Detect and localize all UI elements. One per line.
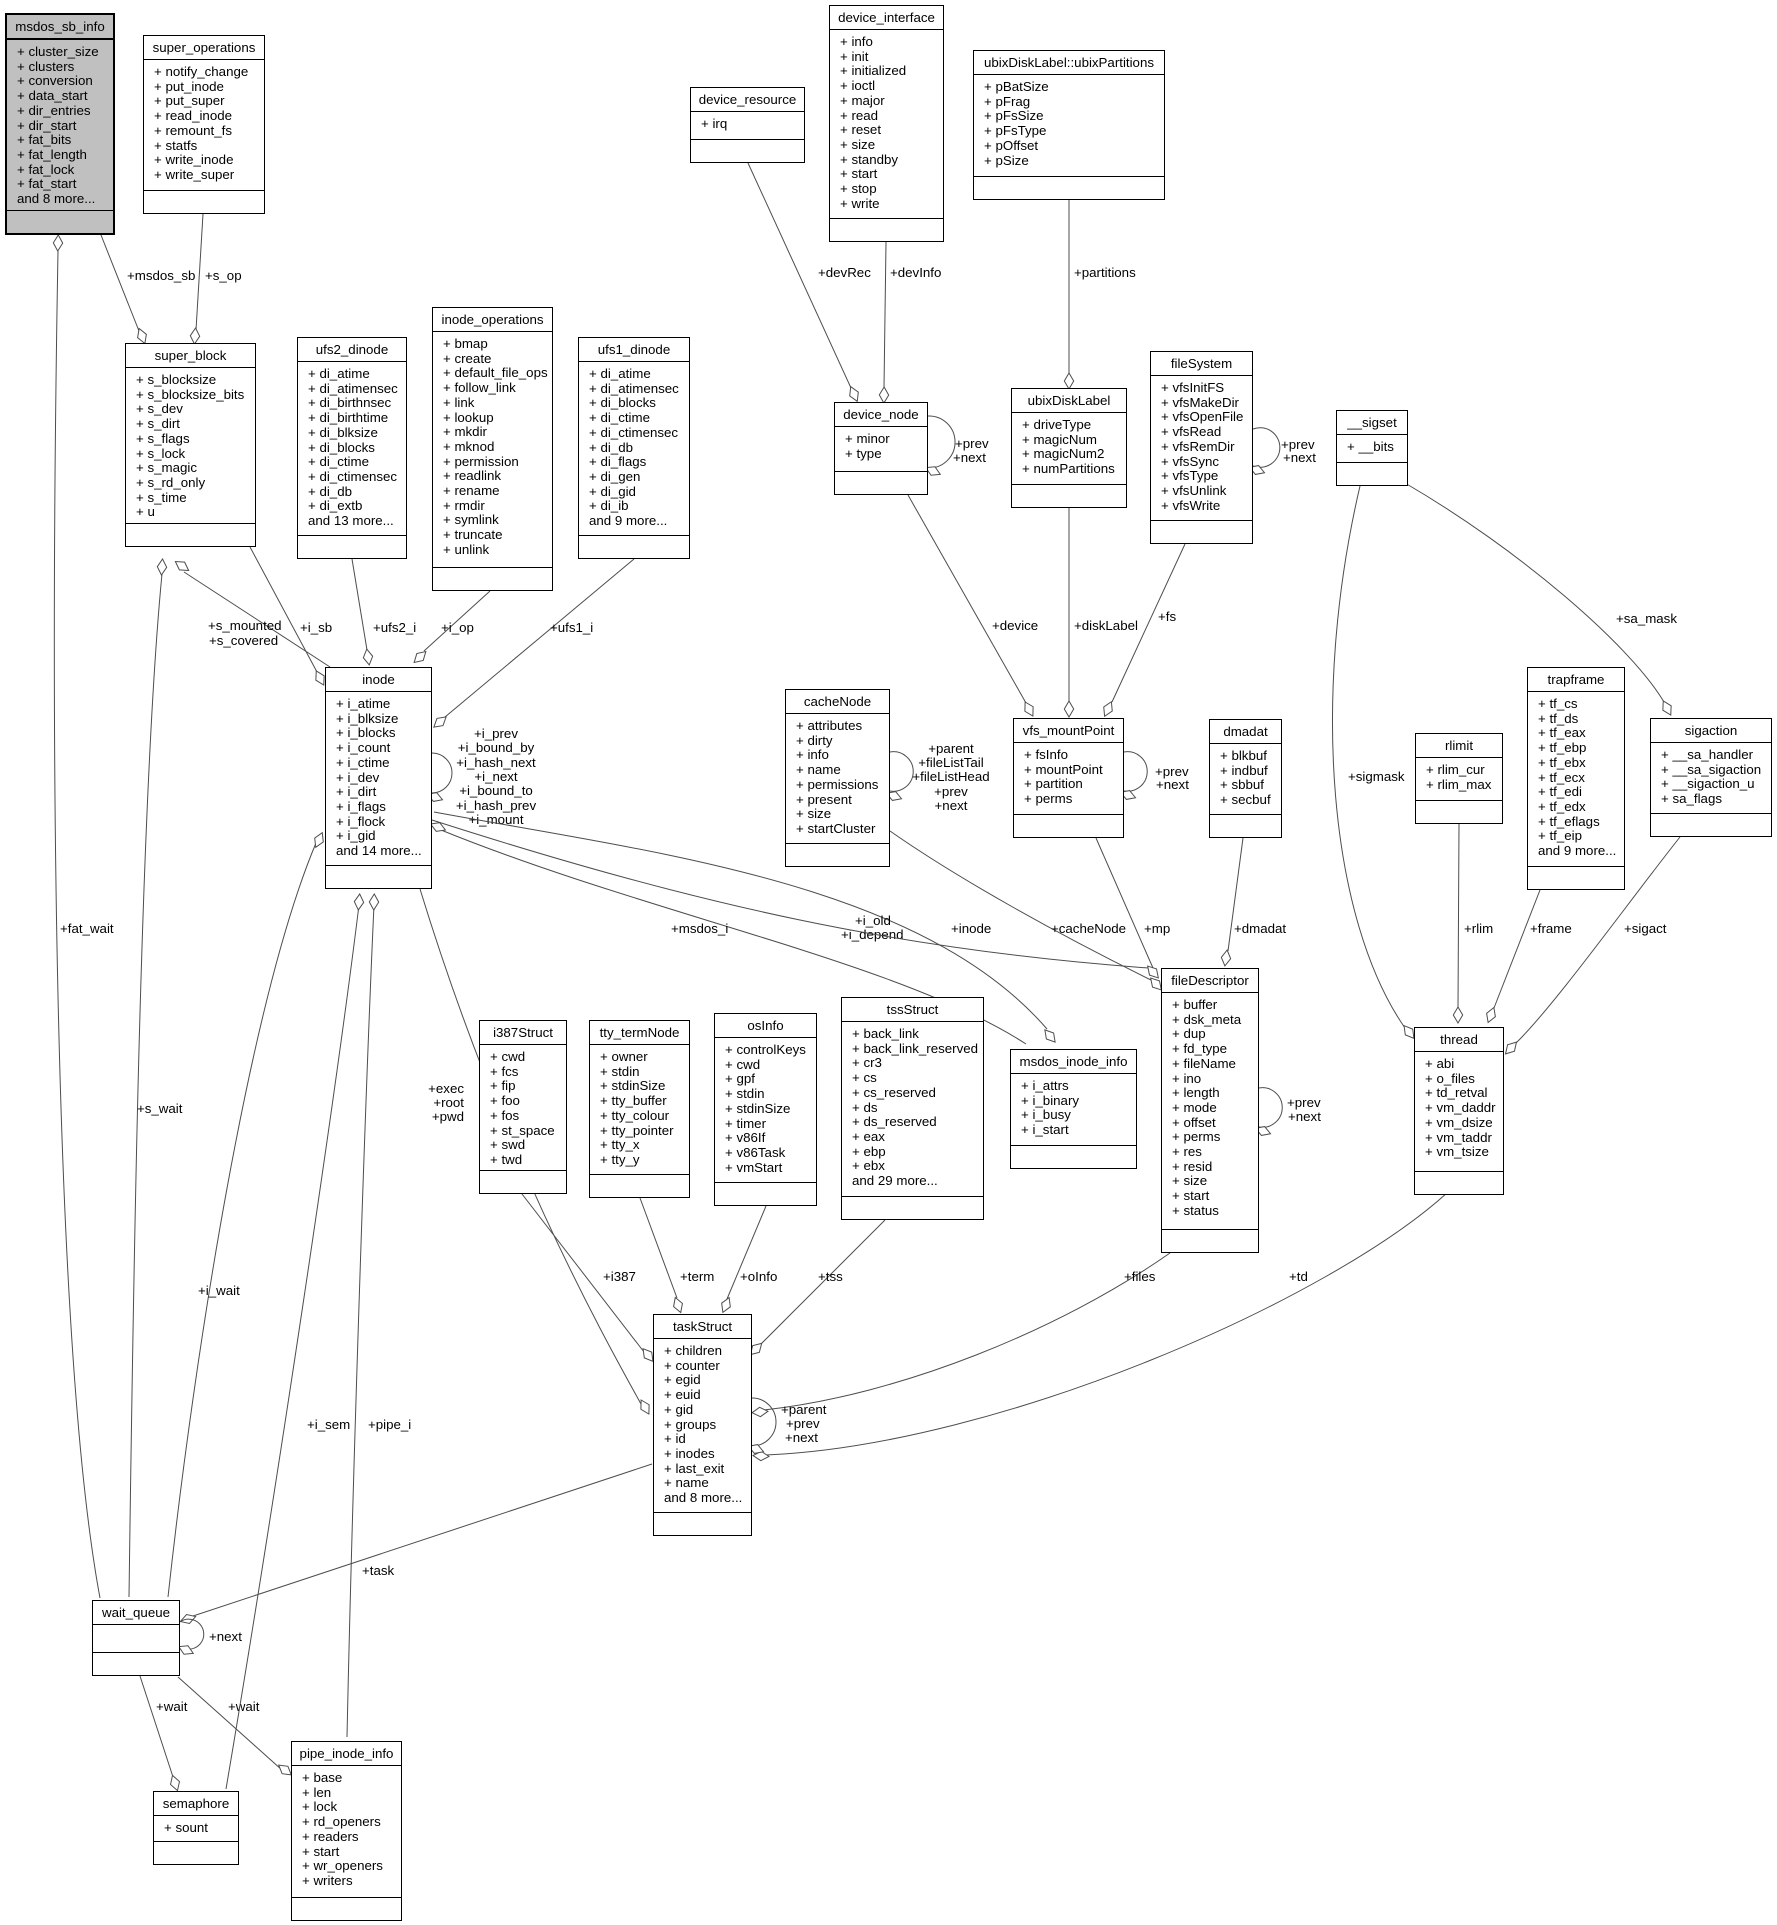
class fileDescriptor [1161, 968, 1259, 1253]
edge +i387 (taskStruct to i387Struct) [522, 1194, 657, 1364]
class sigaction [1650, 718, 1772, 837]
svg-text:+i387: +i387 [603, 1269, 636, 1284]
edge +oInfo (taskStruct to osInfo) [719, 1206, 766, 1314]
svg-text:+partitions: +partitions [1074, 265, 1136, 280]
svg-text:+i_sb: +i_sb [300, 620, 332, 635]
class device_node [834, 402, 928, 495]
edge self-loop inode (+i_prev +i_bound_by +i_hash_next +i_next +i_bound_to +i_hash_prev +i_mount) [426, 753, 452, 804]
svg-text:+ufs1_i: +ufs1_i [550, 620, 593, 635]
svg-text:+dmadat: +dmadat [1234, 921, 1286, 936]
edge +inode (fileDescriptor to inode) [432, 820, 1162, 981]
svg-text:+diskLabel: +diskLabel [1074, 618, 1138, 633]
svg-text:+files: +files [1124, 1269, 1156, 1284]
svg-text:+i_hash_next: +i_hash_next [456, 755, 536, 770]
svg-text:+sigact: +sigact [1624, 921, 1667, 936]
svg-text:+msdos_i: +msdos_i [671, 921, 728, 936]
class device_resource [690, 87, 805, 163]
edge +s_wait (super_block to wait_queue) [129, 559, 167, 1597]
edge +task (wait_queue to taskStruct) [179, 1464, 652, 1626]
edge +devInfo (device_node to device_interface) [879, 242, 889, 403]
edge +devRec (device_node to device_resource) [748, 163, 862, 403]
svg-text:+fileListTail: +fileListTail [918, 755, 983, 770]
edge +td (taskStruct to thread) [753, 1192, 1448, 1461]
class msdos_inode_info [1010, 1049, 1137, 1169]
class semaphore [153, 1791, 239, 1865]
edge +ufs2_i (inode to ufs2_dinode) [352, 559, 374, 666]
edge +s_op (super_block to super_operations) [190, 214, 203, 344]
svg-text:+prev: +prev [955, 436, 989, 451]
svg-text:+prev: +prev [1287, 1095, 1321, 1110]
edge +i_wait (inode to wait_queue) [168, 831, 327, 1597]
svg-text:+task: +task [362, 1563, 395, 1578]
svg-text:+wait: +wait [156, 1699, 188, 1714]
edge +i_sb (inode to super_block) [250, 547, 328, 687]
svg-text:+parent: +parent [781, 1402, 827, 1417]
edge +tss (taskStruct to tssStruct) [747, 1220, 885, 1358]
svg-text:+inode: +inode [951, 921, 991, 936]
svg-text:+tss: +tss [818, 1269, 843, 1284]
class ubixDiskLabel [1011, 388, 1127, 508]
svg-text:+root: +root [433, 1095, 464, 1110]
edge +fat_wait (msdos_sb_info to wait_queue) [53, 235, 100, 1598]
svg-text:+next: +next [209, 1629, 242, 1644]
class msdos_sb_info [5, 13, 115, 235]
edge +ufs1_i (inode to ufs1_dinode) [431, 559, 634, 731]
edge +diskLabel (vfs_mountPoint to ubixDiskLabel) [1064, 508, 1073, 717]
edge +i_old +i_depend (msdos_inode_info to inode) [434, 812, 1059, 1045]
svg-text:+devRec: +devRec [818, 265, 871, 280]
class tssStruct [841, 997, 984, 1220]
svg-text:+cacheNode: +cacheNode [1051, 921, 1126, 936]
edge +wait (semaphore to wait_queue) [140, 1676, 182, 1792]
svg-text:+i_next: +i_next [474, 769, 518, 784]
class device_interface [829, 5, 944, 242]
svg-text:+td: +td [1289, 1269, 1308, 1284]
edge +term (taskStruct to tty_termNode) [640, 1198, 685, 1314]
class __sigset [1336, 410, 1408, 486]
edge +rlim (thread to rlimit) [1453, 824, 1462, 1023]
edge +msdos_sb (super_block to msdos_sb_info) [101, 235, 149, 345]
svg-text:+prev: +prev [934, 784, 968, 799]
class inode_operations [432, 307, 553, 591]
class dmadat [1209, 719, 1282, 838]
edge self-loop +prev +next (device_node) [924, 416, 955, 479]
svg-text:+i_sem: +i_sem [307, 1417, 350, 1432]
svg-text:+next: +next [1283, 450, 1316, 465]
edge +i_sem (inode to semaphore) [226, 894, 364, 1789]
class osInfo [714, 1013, 817, 1206]
class trapframe [1527, 667, 1625, 890]
class taskStruct [653, 1314, 752, 1536]
edge +cacheNode (fileDescriptor to cacheNode) [890, 831, 1165, 993]
svg-text:+i_old: +i_old [855, 913, 891, 928]
edge +pipe_i (inode to pipe_inode_info) [347, 894, 379, 1737]
edge self-loop cacheNode (+parent +fileListTail +fileListHead +prev +next) [885, 752, 913, 803]
svg-text:+wait: +wait [228, 1699, 260, 1714]
class tty_termNode [589, 1020, 690, 1198]
edge +sa_mask (sigaction to __sigset) [1405, 483, 1675, 717]
edge +msdos_i (inode to msdos_inode_info) [429, 820, 1026, 1044]
svg-text:+i_prev: +i_prev [474, 726, 518, 741]
edge +device (vfs_mountPoint to device_node) [908, 495, 1037, 718]
svg-text:+exec: +exec [428, 1081, 464, 1096]
svg-text:+sa_mask: +sa_mask [1616, 611, 1677, 626]
edge +sigact (thread to sigaction) [1502, 837, 1680, 1057]
svg-text:+sigmask: +sigmask [1348, 769, 1405, 784]
edge self-loop +prev +next (vfs_mountPoint) [1119, 752, 1147, 802]
class inode [325, 667, 432, 889]
svg-text:+fat_wait: +fat_wait [60, 921, 114, 936]
edge +fs (vfs_mountPoint to fileSystem) [1100, 544, 1185, 718]
svg-text:+fileListHead: +fileListHead [912, 769, 989, 784]
svg-text:+device: +device [992, 618, 1038, 633]
svg-text:+term: +term [680, 1269, 714, 1284]
svg-text:+prev: +prev [786, 1416, 820, 1431]
svg-text:+ufs2_i: +ufs2_i [373, 620, 416, 635]
edge +exec +root +pwd (taskStruct to inode) [420, 889, 653, 1416]
svg-text:+i_bound_by: +i_bound_by [458, 740, 535, 755]
edge +partitions (ubixDiskLabel to ubixDiskLabel::ubixPartitions) [1064, 200, 1073, 389]
edge +dmadat (fileDescriptor to dmadat) [1220, 838, 1243, 967]
svg-text:+oInfo: +oInfo [740, 1269, 777, 1284]
edge +frame (thread to trapframe) [1484, 890, 1540, 1024]
class cacheNode [785, 689, 890, 867]
svg-text:+pwd: +pwd [432, 1109, 464, 1124]
edge +sigmask (thread to __sigset) [1332, 486, 1417, 1041]
svg-text:+next: +next [953, 450, 986, 465]
svg-text:+s_op: +s_op [205, 268, 242, 283]
class super_operations [143, 35, 265, 214]
class fileSystem [1150, 351, 1253, 544]
svg-text:+fs: +fs [1158, 609, 1176, 624]
class rlimit [1415, 733, 1503, 824]
edge self-loop +prev +next (fileSystem) [1248, 428, 1280, 477]
svg-text:+s_covered: +s_covered [209, 633, 278, 648]
class wait_queue [92, 1600, 180, 1676]
svg-text:+s_mounted: +s_mounted [208, 618, 282, 633]
edge +s_mounted +s_covered (super_block to inode) [173, 558, 330, 667]
class ubixDiskLabel::ubixPartitions [973, 50, 1165, 200]
svg-text:+next: +next [1288, 1109, 1321, 1124]
class vfs_mountPoint [1013, 718, 1124, 838]
edge +i_op (inode to inode_operations) [411, 591, 490, 666]
svg-text:+rlim: +rlim [1464, 921, 1493, 936]
svg-text:+i_depend: +i_depend [841, 927, 904, 942]
class ufs1_dinode [578, 337, 690, 559]
edge self-loop taskStruct (+parent +prev +next) [747, 1398, 776, 1456]
edge +mp (fileDescriptor to vfs_mountPoint) [1096, 838, 1153, 968]
svg-text:+parent: +parent [928, 741, 974, 756]
svg-text:+devInfo: +devInfo [890, 265, 941, 280]
svg-text:+msdos_sb: +msdos_sb [127, 268, 195, 283]
svg-text:+i_wait: +i_wait [198, 1283, 240, 1298]
svg-text:+pipe_i: +pipe_i [368, 1417, 411, 1432]
svg-text:+next: +next [785, 1430, 818, 1445]
svg-text:+s_wait: +s_wait [137, 1101, 183, 1116]
svg-text:+i_bound_to: +i_bound_to [459, 783, 533, 798]
svg-text:+mp: +mp [1144, 921, 1170, 936]
edge self-loop +prev +next (fileDescriptor) [1254, 1088, 1282, 1138]
class i387Struct [479, 1020, 567, 1194]
class super_block [125, 343, 256, 547]
class pipe_inode_info [291, 1741, 402, 1921]
edge self-loop +next (wait_queue) [177, 1619, 204, 1657]
class thread [1414, 1027, 1504, 1195]
svg-text:+next: +next [1156, 777, 1189, 792]
svg-text:+next: +next [935, 798, 968, 813]
svg-text:+frame: +frame [1530, 921, 1572, 936]
svg-text:+i_op: +i_op [441, 620, 474, 635]
svg-text:+i_hash_prev: +i_hash_prev [456, 798, 537, 813]
class ufs2_dinode [297, 337, 407, 559]
edge +files (taskStruct to fileDescriptor) [752, 1253, 1170, 1417]
edge +wait (pipe_inode_info to wait_queue) [178, 1677, 294, 1779]
